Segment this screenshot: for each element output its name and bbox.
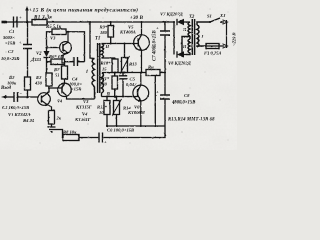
resistor R12 [104,101,110,115]
capacitor C4 [74,57,78,66]
wire C7 C8 filter column [164,22,166,126]
svg-text:+30 В: +30 В [130,15,143,21]
svg-text:С8: С8 [184,93,190,98]
svg-text:V1 КТ342А: V1 КТ342А [8,112,30,117]
wire R3 to V1 collector [47,86,49,93]
svg-text:С5: С5 [130,77,136,82]
thermistor R13 [122,58,128,73]
diode V7 cathode bar [176,19,178,25]
wire S1 to X1 [221,21,224,23]
svg-text:V3: V3 [83,99,89,104]
svg-text:×15В: ×15В [71,87,81,92]
node R9/base junction [110,43,112,45]
svg-text:R5 5,1к: R5 5,1к [46,25,62,30]
resistor R9 [108,26,114,38]
capacitor C1 [14,17,18,28]
thermistor R13 diagonal stroke [120,56,130,74]
wire R13 top lead [124,44,126,58]
svg-text:S1: S1 [207,14,212,19]
svg-text:R1 3,3к: R1 3,3к [34,15,52,21]
terminal input arrow [1,95,7,99]
svg-text:0,047: 0,047 [126,82,137,87]
emitter arrow V3 [66,52,69,54]
wire feedback line [54,126,165,138]
svg-text:С3 100,0×15В: С3 100,0×15В [2,105,29,110]
capacitor C7 [160,31,170,35]
wire bottom ground bus [106,125,165,127]
capacitor C2 [23,45,32,49]
svg-text:V4: V4 [57,99,63,104]
svg-text:+: + [156,26,159,31]
wire R6 C4 coupling line [48,61,85,63]
svg-text:II: II [182,27,187,32]
wire +15V tap [26,10,28,22]
resistor R10 [112,59,118,73]
svg-text:V3: V3 [50,36,56,41]
node rail/R9 junction [110,21,112,23]
svg-text:V8 КД202Д: V8 КД202Д [168,61,192,66]
transistor V1 [38,93,52,111]
fuse F1 [206,44,219,49]
wire V6 base stub [134,96,138,98]
node rail/rectifier junction [173,21,175,23]
svg-text:4000,0×15В: 4000,0×15В [171,101,195,106]
svg-text:R10*: R10* [101,61,112,66]
node R14/bus junction [116,125,118,127]
svg-text:+15 В (к цепи питания предусил: +15 В (к цепи питания предусилителя) [29,7,138,14]
resistor R3 [46,73,52,86]
svg-text:+: + [104,140,107,145]
thermistor R14 [114,101,120,115]
node R14/base junction [116,96,118,98]
node speaker return/bus junction [154,125,156,127]
svg-text:R13,R14 ММТ-13В 68: R13,R14 ММТ-13В 68 [168,118,215,123]
capacitor C5 [119,76,127,79]
transistor V5 [134,22,150,73]
node R11/base junction [114,96,116,98]
node V5 emitter/output junction [140,72,142,74]
wire +15V/+30V top supply rail [6,21,174,23]
connector X1 pin arrow upper [223,20,228,24]
node R13/base junction [124,43,126,45]
resistor R8 [63,135,79,141]
svg-text:R13: R13 [129,62,137,67]
svg-text:430: 430 [34,81,43,86]
thermistor R14 diagonal stroke [112,99,122,116]
wire rail to input node through C2 and R2 [27,22,29,97]
emitter arrow V1 [45,104,47,106]
node switch S1 throw [220,21,222,23]
node rail/C7 junction [164,21,166,23]
svg-text:+: + [19,15,22,20]
resistor R4 [49,111,55,125]
capacitor C6 [99,133,103,143]
svg-text:F1 0,25А: F1 0,25А [204,51,222,56]
svg-text:V4: V4 [82,112,88,117]
wire C5 leads [122,73,124,97]
svg-text:R8 10к: R8 10к [63,130,77,135]
svg-text:R3: R3 [36,75,42,80]
wire R9 leads [110,22,112,44]
resistor R5 [52,29,66,35]
diode V2 [44,51,50,57]
svg-text:С7 4000,0×15В: С7 4000,0×15В [153,29,158,61]
capacitor C8 [160,95,170,99]
svg-text:Rн: Rн [148,65,154,70]
svg-text:Д223: Д223 [30,57,42,62]
svg-text:X1: X1 [219,13,225,18]
svg-text:×15В: ×15В [5,41,15,46]
wire V3 base [47,47,60,49]
wire R11 leads [114,73,116,97]
connector X1 bar [226,20,228,48]
emitter arrow V5 [139,48,142,51]
svg-text:R6* 1М: R6* 1М [49,54,65,59]
capacitor C3 [14,92,18,102]
node V4 base junction [48,87,50,89]
svg-text:5000×: 5000× [3,35,15,40]
transformer T1 windings and core [92,43,104,99]
node C5/output junction [122,72,124,74]
svg-text:Т1: Т1 [95,37,100,42]
node V3 collector junction [67,31,69,33]
wire V5 base line [102,43,135,45]
svg-text:II: II [182,44,187,49]
svg-text:V6: V6 [134,105,140,110]
svg-text:51: 51 [55,73,60,78]
svg-text:R4 24: R4 24 [23,118,35,123]
transistor V6 [133,73,149,127]
wire R12 leads [106,97,108,127]
svg-text:V7 КД202Д: V7 КД202Д [160,12,184,17]
transistor V3 [60,32,72,66]
wire rail to T1 primary [90,22,95,59]
wire V2 bias chain [47,48,63,89]
ground [48,124,56,132]
svg-text:10,0×25В: 10,0×25В [1,56,19,61]
node R10/output junction [114,72,116,74]
wire V5 base stub [134,43,138,45]
wire V6 base line [102,93,135,97]
svg-text:КТ808М: КТ808М [127,110,146,115]
svg-text:С6 100,0×15В: С6 100,0×15В [107,128,134,133]
svg-text:КТ361Г: КТ361Г [74,117,91,122]
node switch S1 pole [209,21,211,23]
svg-text:Вход: Вход [0,86,12,91]
node C5/base junction [122,96,124,98]
node rail/V5 collector junction [141,21,143,23]
connector X1 pin arrow lower [223,44,228,48]
diode V8 cathode bar [176,51,178,57]
wire output node line [102,72,166,74]
svg-text:10: 10 [99,110,104,115]
node +15V tap junction [26,21,28,23]
node rail/T1 junction [89,21,91,23]
svg-text:180: 180 [100,30,108,35]
node R13/output junction [124,72,126,74]
resistor R11 [112,76,118,89]
svg-text:R7: R7 [54,67,60,72]
svg-text:С1: С1 [9,29,14,34]
resistor R2 [25,77,31,90]
diode V8 [177,51,184,57]
node R6 tap junction [47,61,49,63]
svg-text:R9*: R9* [100,25,108,30]
svg-text:R12*: R12* [97,105,108,110]
wire speaker return [154,76,156,127]
svg-text:I: I [201,34,204,39]
svg-text:II: II [106,91,111,96]
svg-text:+: + [156,90,159,95]
resistor R1 [32,20,47,26]
load resistor Rн [146,70,160,76]
svg-text:100к: 100к [7,81,17,86]
svg-text:R2: R2 [9,75,15,80]
svg-text:I: I [85,69,88,74]
fuse F1 element line and wire to X1 [206,45,224,47]
resistor R6 [51,59,65,65]
svg-text:КТ315Г: КТ315Г [75,105,92,110]
node output/C7-C8 midpoint junction [164,72,166,74]
wire R5 branch and C4 feed [47,32,85,62]
svg-text:180: 180 [100,82,108,87]
node R12/base junction [106,96,108,98]
power arrow +15V [25,6,29,11]
wire rectifier cathode bus [174,22,190,55]
switch S1 blade [210,18,220,22]
svg-text:С2: С2 [8,49,14,54]
diode V2 cathode bar [44,57,50,59]
node V3 base junction [46,47,48,49]
wire T1 secondary to R10 [102,58,116,59]
svg-text:15: 15 [102,67,107,72]
emitter arrow V4 [62,84,64,87]
wire R14 leads [116,97,118,127]
svg-text:2к: 2к [56,116,62,121]
node V6 emitter/bus junction [140,125,142,127]
svg-text:+: + [20,91,23,96]
resistor R7 [62,66,68,79]
wire input line to V1 base [6,96,38,98]
svg-text:~220 В: ~220 В [232,33,237,46]
transistor V4 [58,79,95,99]
svg-text:КТ808А: КТ808А [119,30,136,35]
svg-text:II: II [105,44,110,49]
svg-text:+: + [19,40,22,45]
svg-text:R11*: R11* [100,76,110,81]
node input junction [27,96,29,98]
terminal input stub left of C1 [2,21,8,24]
svg-text:V2: V2 [36,51,42,56]
transformer T2 windings, core and taps [182,19,210,55]
emitter arrow V6 [138,99,141,102]
node R12/bus junction [106,125,108,127]
diode V7 [177,19,184,25]
